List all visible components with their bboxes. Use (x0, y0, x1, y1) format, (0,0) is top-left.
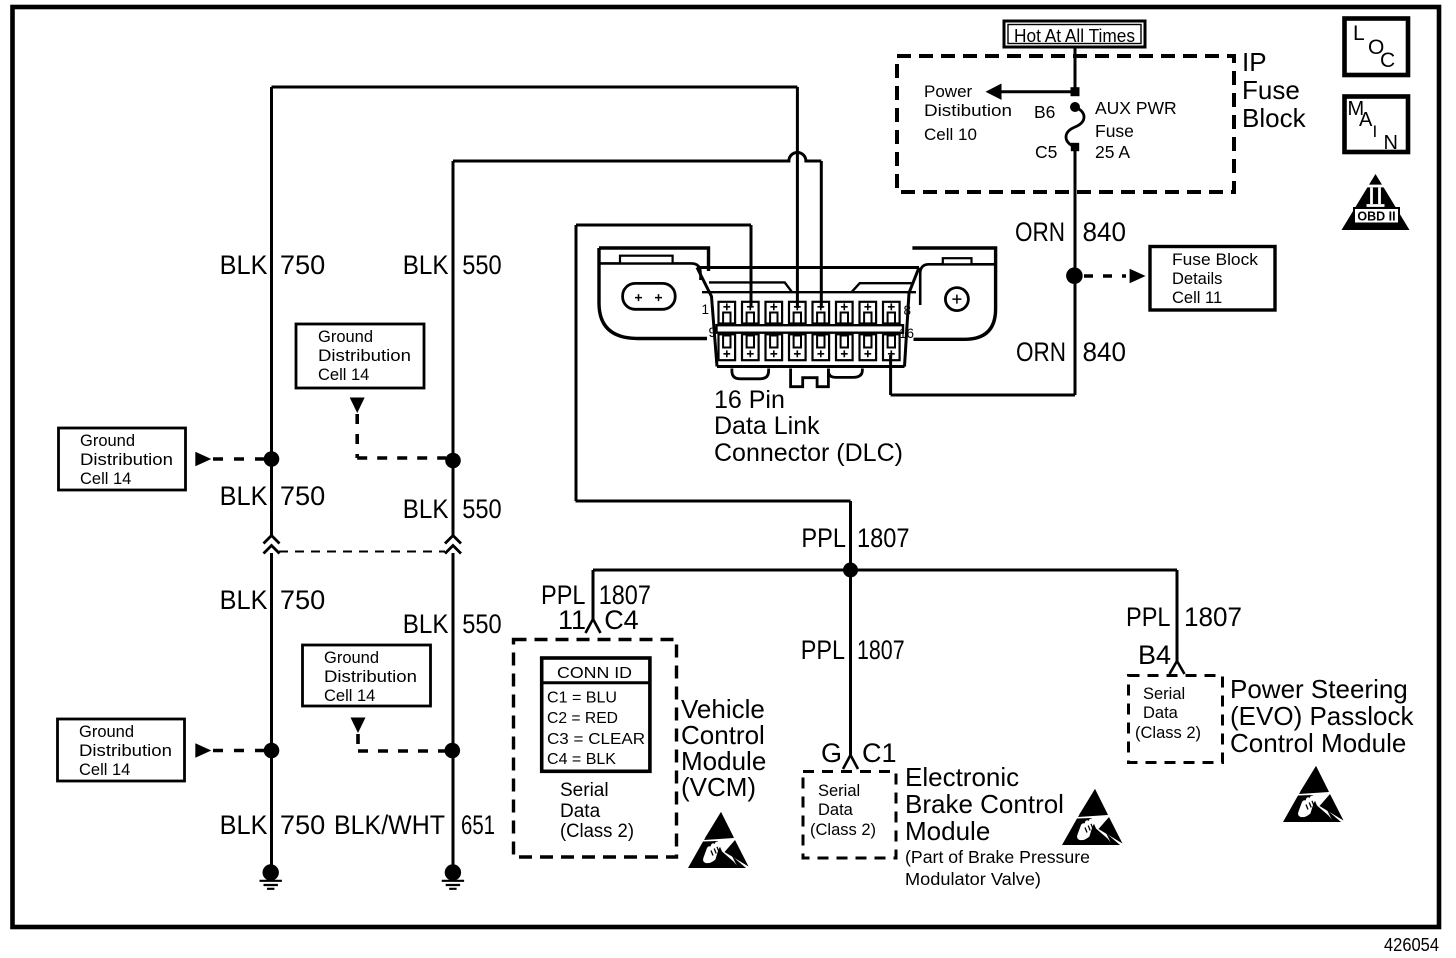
label BLK 550 (top) (403, 250, 502, 280)
svg-text:Ground: Ground (79, 723, 134, 741)
label PPL 1807 (main) (801, 523, 909, 553)
svg-text:BLK: BLK (403, 494, 449, 524)
dashed leader: Fuse Block Details (1084, 269, 1146, 283)
svg-text:Ground: Ground (80, 432, 135, 450)
break symbol BLK750 (264, 536, 280, 554)
label BLK 550 (3rd) (403, 609, 502, 639)
svg-text:750: 750 (280, 585, 325, 615)
svg-text:Connector (DLC): Connector (DLC) (714, 439, 903, 467)
svg-text:Block: Block (1242, 103, 1307, 133)
svg-text:Serial: Serial (1143, 685, 1185, 703)
junction dot on BLK/WHT651 splice (445, 743, 461, 759)
junction dot on BLK750 upper splice (264, 451, 280, 467)
wire BLK 750: pin 4 to ground (272, 87, 798, 873)
label PPL 1807 (EBCM branch) (801, 635, 905, 665)
dashed box EBCM serial data (803, 772, 896, 859)
ESD symbol EVO (1283, 766, 1344, 822)
svg-text:Details: Details (1172, 270, 1222, 288)
DLC pin 15 (860, 334, 877, 360)
svg-text:Cell 11: Cell 11 (1172, 289, 1222, 307)
dashed box EVO serial data (1129, 676, 1223, 763)
svg-text:AUX PWR: AUX PWR (1095, 98, 1177, 118)
svg-text:16 Pin: 16 Pin (714, 386, 785, 414)
svg-text:Cell 14: Cell 14 (318, 366, 369, 384)
wire BLK 550: pin 5 to lower splice (hops over BLK750) (453, 153, 821, 874)
svg-text:BLK: BLK (220, 250, 268, 280)
svg-text:(VCM): (VCM) (681, 772, 756, 802)
svg-text:PPL: PPL (1126, 602, 1171, 632)
label Serial Data (Class 2) EBCM (810, 782, 876, 839)
svg-text:Data Link: Data Link (714, 412, 820, 440)
label BLK 750 (2nd) (220, 481, 326, 511)
dashed leader: left Ground Distribution (upper) (195, 452, 264, 466)
svg-text:Data: Data (560, 801, 601, 822)
svg-text:Control Module: Control Module (1230, 728, 1406, 758)
svg-text:(Part of Brake Pressure: (Part of Brake Pressure (905, 847, 1090, 867)
svg-text:Cell 10: Cell 10 (924, 125, 977, 144)
svg-text:B4: B4 (1138, 640, 1171, 670)
connector fork at EVO pin B4 (1170, 661, 1185, 674)
svg-text:Cell 14: Cell 14 (80, 470, 131, 488)
connector fork at EBCM pin G/C1 (843, 755, 858, 769)
svg-text:Module: Module (905, 816, 990, 846)
DLC pin 12 (789, 334, 806, 360)
svg-text:Fuse: Fuse (1242, 75, 1300, 105)
svg-text:A: A (1359, 109, 1373, 131)
CONN ID table (542, 658, 650, 771)
logo OBD II triangle (1342, 174, 1410, 230)
wire ORN 840: fuse to DLC pin 16 (891, 47, 1075, 395)
label BLK 550 (2nd) (403, 494, 502, 524)
svg-text:OBD II: OBD II (1357, 210, 1395, 224)
DLC pin 8 (883, 302, 900, 324)
svg-text:PPL: PPL (801, 635, 845, 665)
label (Part of Brake Pressure Modulator Valve) (905, 847, 1090, 889)
svg-text:550: 550 (462, 609, 501, 639)
label Serial Data (Class 2) EVO (1135, 685, 1201, 742)
junction dot on BLK550 upper splice (445, 453, 461, 469)
svg-text:1: 1 (701, 302, 709, 317)
svg-text:Distibution: Distibution (924, 101, 1012, 120)
DLC pin 10 (742, 334, 759, 360)
junction square B6 feed (1071, 87, 1080, 96)
svg-text:ORN: ORN (1016, 337, 1066, 367)
svg-text:550: 550 (462, 494, 501, 524)
ESD symbol VCM (688, 812, 749, 868)
DLC pin 11 (766, 334, 783, 360)
label IP Fuse Block (1242, 47, 1307, 133)
DLC body (697, 268, 919, 367)
svg-text:Distribution: Distribution (318, 347, 411, 365)
DLC pin 2 (742, 302, 759, 324)
svg-text:ORN: ORN (1015, 217, 1065, 247)
svg-text:Cell 14: Cell 14 (324, 687, 375, 705)
DLC center bar (717, 325, 904, 333)
label Serial Data (Class 2) VCM (560, 780, 634, 842)
DLC pin 4 (789, 302, 806, 324)
arrowhead to Power Distribution (986, 84, 1002, 100)
svg-text:CONN ID: CONN ID (557, 665, 632, 682)
svg-text:Data: Data (1143, 704, 1179, 722)
DLC pin 6 (836, 302, 853, 324)
label AUX PWR Fuse 25 A (1095, 98, 1177, 162)
svg-text:C: C (1380, 49, 1395, 72)
svg-text:426054: 426054 (1384, 935, 1439, 955)
svg-text:840: 840 (1083, 217, 1127, 247)
svg-text:C5: C5 (1035, 142, 1057, 162)
label 11 / C4 (558, 605, 639, 635)
svg-text:1807: 1807 (857, 635, 905, 665)
DLC pin 7 (860, 302, 877, 324)
svg-text:Power: Power (924, 82, 973, 101)
junction dot on BLK750 lower splice (264, 743, 280, 759)
svg-text:1807: 1807 (857, 523, 910, 553)
DLC pin 1 (719, 302, 736, 324)
DLC pin 13 (813, 334, 830, 360)
svg-text:Brake Control: Brake Control (905, 789, 1064, 819)
svg-text:651: 651 (461, 810, 495, 840)
wire to Power Distribution (hot feed) (1000, 90, 1075, 93)
svg-text:G: G (821, 738, 842, 768)
svg-text:C2 = RED: C2 = RED (547, 710, 618, 727)
DLC pin 3 (766, 302, 783, 324)
junction dot ORN 840 fuse-block tap (1066, 267, 1083, 284)
svg-text:C1: C1 (862, 738, 897, 768)
label PPL 1807 (EVO branch) (1126, 602, 1242, 632)
svg-text:BLK: BLK (403, 250, 449, 280)
svg-text:I: I (1373, 122, 1378, 141)
svg-text:Fuse: Fuse (1095, 121, 1134, 141)
label ORN 840 (lower) (1016, 337, 1126, 367)
label Power Distribution Cell 10 (924, 82, 1012, 144)
svg-text:C4 = BLK: C4 = BLK (547, 751, 617, 768)
svg-text:11: 11 (558, 605, 586, 635)
connector fork at VCM pin 11/C4 (586, 619, 601, 633)
DLC pin 5 (813, 302, 830, 324)
svg-text:C3 = CLEAR: C3 = CLEAR (547, 731, 645, 748)
ground G202 (BLK/WHT 651) (442, 864, 464, 889)
label BLK 750 (bottom) (220, 810, 326, 840)
svg-text:Power Steering: Power Steering (1230, 674, 1408, 704)
label G / C1 (821, 738, 897, 768)
dashed leader: middle Ground Distribution (lower) (351, 718, 446, 752)
box Fuse Block Details Cell 11 (1150, 247, 1275, 311)
label Power Steering (EVO) Passlock Control Module (1230, 674, 1414, 758)
svg-text:B6: B6 (1034, 102, 1055, 122)
dashed box IP Fuse Block (897, 56, 1234, 192)
label Vehicle Control Module (VCM) (681, 694, 766, 802)
svg-text:BLK/WHT: BLK/WHT (334, 810, 445, 840)
box Hot At All Times (1004, 21, 1145, 47)
label Electronic Brake Control Module (905, 762, 1064, 846)
svg-text:IP: IP (1242, 47, 1267, 77)
svg-text:BLK: BLK (220, 585, 268, 615)
DLC pin 16 (883, 334, 900, 360)
label BLK/WHT 651 (334, 810, 495, 840)
DLC left ear (599, 248, 709, 339)
DLC right ear (912, 248, 995, 339)
DLC pin 9 (719, 334, 736, 360)
svg-text:C4: C4 (604, 605, 639, 635)
DLC right foot (828, 369, 862, 378)
svg-text:N: N (1384, 132, 1398, 154)
box Ground Distribution Cell 14 (mid upper) (296, 324, 424, 388)
svg-text:(EVO) Passlock: (EVO) Passlock (1230, 701, 1414, 731)
dashed leader: left Ground Distribution (lower) (195, 743, 264, 757)
svg-text:840: 840 (1083, 337, 1127, 367)
svg-text:750: 750 (280, 250, 325, 280)
svg-text:Distribution: Distribution (80, 451, 173, 469)
svg-text:Hot At All Times: Hot At All Times (1014, 26, 1135, 46)
svg-text:BLK: BLK (220, 810, 268, 840)
svg-text:Ground: Ground (324, 649, 379, 667)
svg-text:(Class 2): (Class 2) (1135, 724, 1201, 742)
DLC left foot (732, 369, 769, 379)
svg-text:8: 8 (904, 303, 912, 318)
svg-text:Distribution: Distribution (324, 668, 417, 686)
svg-text:PPL: PPL (801, 523, 846, 553)
junction PPL splice (843, 563, 858, 578)
svg-text:1807: 1807 (1184, 602, 1242, 632)
svg-text:750: 750 (280, 481, 325, 511)
box Ground Distribution Cell 14 (mid lower) (303, 645, 431, 706)
svg-text:Serial: Serial (560, 780, 609, 801)
fuse AUX PWR 25A (1070, 102, 1080, 112)
dashed leader: middle Ground Distribution (upper) (350, 398, 446, 459)
wire PPL 1807 from DLC pin 2 (576, 225, 851, 755)
break symbol BLK550 (445, 536, 461, 554)
svg-text:C1 = BLU: C1 = BLU (547, 690, 617, 707)
dashed tie between breaks (279, 551, 445, 553)
svg-text:Serial: Serial (818, 782, 860, 800)
svg-text:16: 16 (899, 326, 914, 341)
svg-text:Modulator Valve): Modulator Valve) (905, 869, 1041, 889)
svg-text:BLK: BLK (220, 481, 268, 511)
label BLK 750 (3rd) (220, 585, 326, 615)
svg-text:Cell 14: Cell 14 (79, 761, 130, 779)
DLC center bracket (791, 369, 829, 387)
label ORN 840 (upper) (1015, 217, 1126, 247)
svg-text:750: 750 (280, 810, 325, 840)
wire PPL 1807 bus to modules (593, 570, 1177, 661)
svg-text:BLK: BLK (403, 609, 449, 639)
dashed box VCM (514, 640, 677, 858)
logo MAIN (1345, 97, 1409, 155)
svg-text:Distribution: Distribution (79, 742, 172, 760)
svg-text:25 A: 25 A (1095, 142, 1130, 162)
box Ground Distribution Cell 14 (left upper) (59, 428, 186, 490)
svg-text:Electronic: Electronic (905, 762, 1019, 792)
label PPL 1807 (VCM branch) (541, 580, 651, 610)
svg-text:L: L (1353, 22, 1365, 45)
svg-text:Fuse Block: Fuse Block (1172, 251, 1259, 269)
ground G201 (BLK 750) (260, 864, 282, 889)
svg-text:(Class 2): (Class 2) (810, 821, 876, 839)
ESD symbol EBCM (1062, 789, 1123, 845)
svg-text:Data: Data (818, 801, 854, 819)
logo LOC (1345, 19, 1409, 76)
label BLK 750 (top) (220, 250, 326, 280)
svg-text:9: 9 (708, 325, 716, 340)
svg-text:550: 550 (462, 250, 501, 280)
svg-text:Ground: Ground (318, 328, 373, 346)
DLC pin 14 (836, 334, 853, 360)
svg-text:(Class 2): (Class 2) (560, 821, 634, 842)
label 16 Pin Data Link Connector (DLC) (714, 386, 903, 467)
box Ground Distribution Cell 14 (left lower) (58, 719, 185, 781)
